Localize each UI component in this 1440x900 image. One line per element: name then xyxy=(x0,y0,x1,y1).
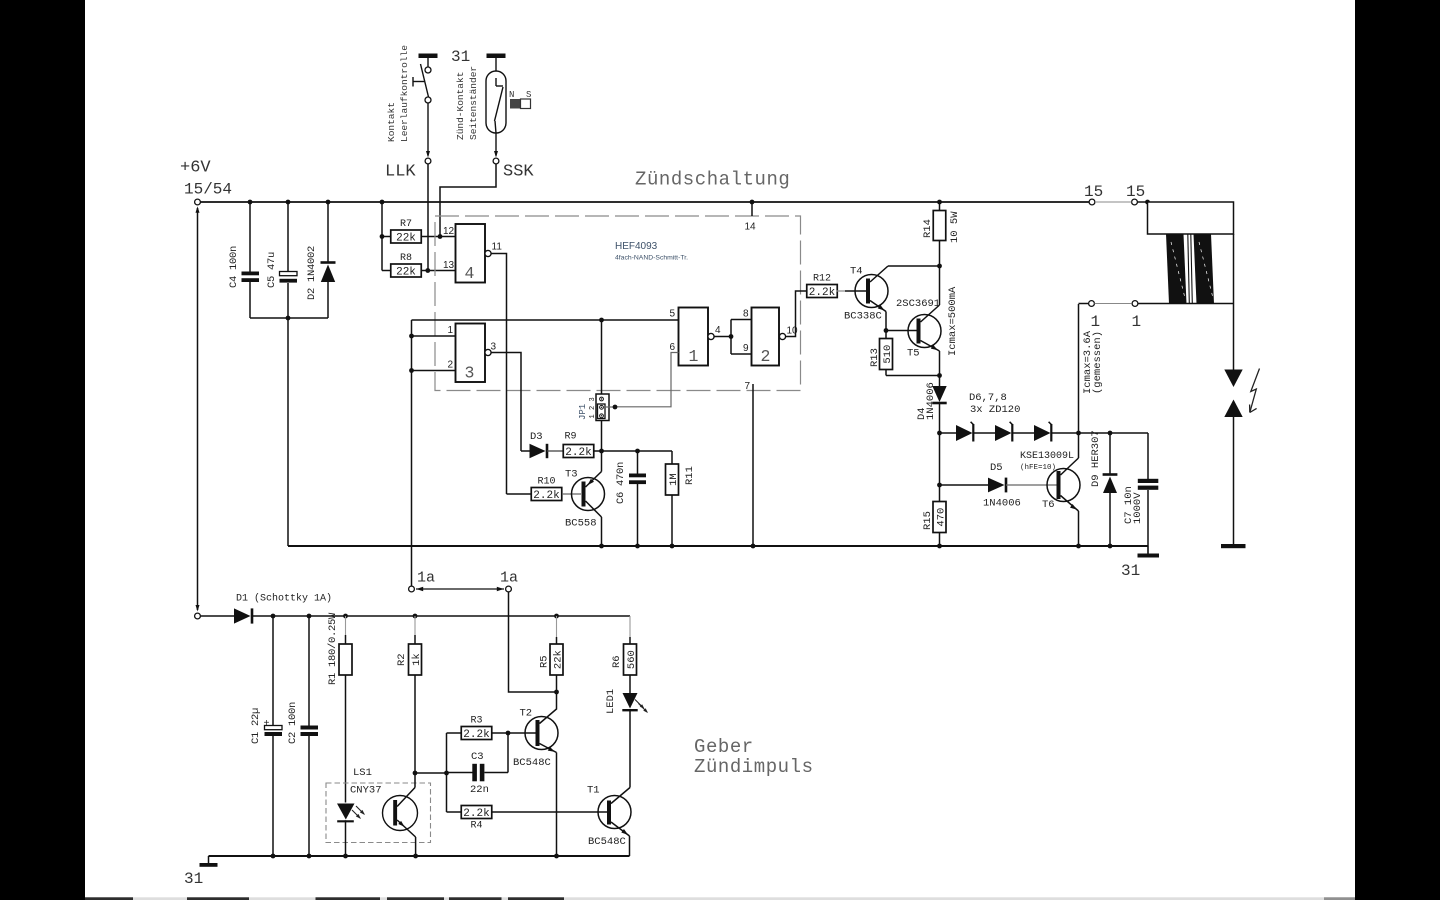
svg-text:1: 1 xyxy=(448,325,454,336)
svg-text:BC558: BC558 xyxy=(565,518,597,530)
svg-text:2.2k: 2.2k xyxy=(533,490,560,502)
wire 1a to T2 collector xyxy=(509,592,557,692)
svg-text:R14: R14 xyxy=(922,219,934,238)
svg-text:510: 510 xyxy=(882,345,894,364)
switch S1 Kontakt Leerlaufkontrolle xyxy=(419,54,438,59)
pin 14 xyxy=(750,200,755,205)
svg-text:Kontakt: Kontakt xyxy=(386,102,397,142)
resistor R15 xyxy=(933,502,946,533)
svg-text:Icmax=500mA: Icmax=500mA xyxy=(947,286,959,356)
svg-text:15/54: 15/54 xyxy=(184,181,232,199)
diode D9 HER307 xyxy=(1109,433,1111,474)
svg-text:3: 3 xyxy=(491,342,497,353)
svg-text:R1 180/0.25W: R1 180/0.25W xyxy=(327,612,339,685)
wire gate4 out to R10 xyxy=(491,254,507,495)
svg-text:2.2k: 2.2k xyxy=(463,729,490,741)
svg-text:Geber: Geber xyxy=(694,736,754,758)
wire gate1 pin6 to JP1 xyxy=(615,353,679,407)
ignition coil winding right xyxy=(1194,234,1215,304)
svg-text:T4: T4 xyxy=(850,266,863,278)
resistor R2 xyxy=(414,616,416,635)
svg-text:C5 47u: C5 47u xyxy=(266,252,278,288)
svg-text:7: 7 xyxy=(745,381,751,392)
svg-text:CNY37: CNY37 xyxy=(350,785,382,797)
spark gap xyxy=(1233,304,1235,370)
svg-text:SSK: SSK xyxy=(503,163,534,182)
svg-text:1k: 1k xyxy=(411,653,423,666)
svg-text:R3: R3 xyxy=(470,716,482,727)
svg-text:D6,7,8: D6,7,8 xyxy=(969,392,1007,404)
capacitor C2 xyxy=(308,616,310,726)
gate U1D nand 4 xyxy=(456,224,486,283)
svg-text:R11: R11 xyxy=(684,466,696,485)
svg-text:Zünd-Kontakt: Zünd-Kontakt xyxy=(455,72,466,140)
wire gate3 out to D3 xyxy=(491,353,521,452)
svg-text:1N4006: 1N4006 xyxy=(983,498,1021,510)
wire JP1 pin1 to R9 node xyxy=(601,421,603,452)
wire LLK to pin13 net xyxy=(427,164,429,271)
wire to ground rail xyxy=(287,318,289,546)
wire lower supply rail xyxy=(252,615,630,617)
svg-text:D2 1N4002: D2 1N4002 xyxy=(306,246,318,300)
svg-text:15: 15 xyxy=(1084,183,1103,201)
resistor R5 xyxy=(556,616,558,637)
diode D2 xyxy=(326,200,331,205)
capacitor C5 xyxy=(286,200,291,205)
wire SSK to pin12 net xyxy=(440,164,496,237)
gate U1C nand 3 xyxy=(456,324,486,383)
svg-text:R7: R7 xyxy=(400,219,412,230)
terminal +6V 15/54 xyxy=(195,199,201,205)
svg-text:2: 2 xyxy=(761,347,771,366)
svg-text:2.2k: 2.2k xyxy=(565,447,592,459)
resistor R1 xyxy=(345,616,347,635)
svg-text:LS1: LS1 xyxy=(353,767,372,779)
svg-text:8: 8 xyxy=(743,309,749,320)
ignition coil core xyxy=(1188,234,1190,304)
svg-text:1: 1 xyxy=(1091,313,1101,331)
vertical link wire +6V to lower supply xyxy=(197,208,199,610)
svg-text:R2: R2 xyxy=(396,653,408,666)
wire zener net xyxy=(1051,432,1148,434)
svg-text:10: 10 xyxy=(787,326,799,337)
terminal 1a left xyxy=(409,586,415,592)
ignition coil winding left xyxy=(1166,234,1187,304)
optocoupler LS1 CNY37 outline xyxy=(326,783,431,843)
terminal 1 left xyxy=(1089,301,1095,307)
svg-text:R10: R10 xyxy=(537,477,555,488)
svg-text:N: N xyxy=(509,90,514,100)
svg-text:R9: R9 xyxy=(564,432,576,443)
wire gate2 out to R12 xyxy=(786,291,808,337)
svg-text:C6 470n: C6 470n xyxy=(615,462,627,504)
resistor R4 xyxy=(447,811,462,813)
svg-text:Zündimpuls: Zündimpuls xyxy=(694,756,814,778)
svg-text:T5: T5 xyxy=(907,348,920,360)
svg-text:R12: R12 xyxy=(813,274,831,285)
LED1 xyxy=(623,693,638,709)
svg-text:BC338C: BC338C xyxy=(844,311,882,323)
resistor R6 xyxy=(629,616,631,637)
gate U1B nand 2 xyxy=(752,308,780,366)
terminal 1 right xyxy=(1132,301,1138,307)
optocoupler LED xyxy=(337,804,355,820)
capacitor C6 xyxy=(637,451,639,474)
wire 1 to T6 collector xyxy=(1079,303,1089,305)
resistor R9 xyxy=(563,445,594,458)
IC U1 HEF4093 outline xyxy=(435,216,801,391)
resistor R8 xyxy=(382,270,391,272)
svg-text:C4 100n: C4 100n xyxy=(228,246,240,288)
svg-text:D9 HER307: D9 HER307 xyxy=(1090,430,1102,487)
svg-text:1M: 1M xyxy=(668,473,680,486)
resistor R11 xyxy=(671,451,673,465)
svg-text:LLK: LLK xyxy=(385,163,416,182)
transistor T2 BC548C npn xyxy=(525,717,558,750)
diode D5 xyxy=(940,484,989,486)
svg-text:4: 4 xyxy=(715,325,721,336)
transistor T6 KSE13009L npn xyxy=(1047,469,1080,502)
zener D7 xyxy=(973,432,995,434)
wire R9 node xyxy=(594,450,672,452)
capacitor C3 xyxy=(447,772,473,774)
wire 1 to coil bottom xyxy=(1138,303,1233,305)
terminal SSK xyxy=(493,158,499,164)
wire 15 to coil xyxy=(1138,201,1149,203)
svg-text:22k: 22k xyxy=(396,267,416,279)
svg-text:(gemessen): (gemessen) xyxy=(1092,331,1104,394)
resistor R7 xyxy=(382,236,391,238)
zener D6 xyxy=(940,432,957,434)
svg-text:22n: 22n xyxy=(470,784,489,796)
svg-text:1000V: 1000V xyxy=(1132,492,1144,524)
svg-text:6: 6 xyxy=(670,342,676,353)
diode D4 xyxy=(939,376,941,387)
svg-text:BC548C: BC548C xyxy=(513,757,551,769)
transistor T5 2SC3691 npn xyxy=(908,315,941,348)
jumper JP1 xyxy=(596,394,609,421)
svg-text:T2: T2 xyxy=(520,708,533,720)
wire JP1 pin2 xyxy=(605,406,615,408)
lightning bolt xyxy=(1250,369,1260,413)
wire S2 to SSK xyxy=(495,133,497,156)
svg-text:12: 12 xyxy=(443,226,455,237)
wire S1 to LLK xyxy=(427,103,429,156)
resistor R10 xyxy=(507,493,532,495)
terminal 1a right xyxy=(506,586,512,592)
diode D1 xyxy=(201,615,234,617)
gate U1A nand 1 xyxy=(679,308,709,366)
svg-text:2: 2 xyxy=(589,406,597,410)
svg-text:R13: R13 xyxy=(869,348,881,367)
svg-text:R15: R15 xyxy=(922,511,934,530)
wire gate3 inputs xyxy=(412,335,456,337)
wire gate3 net to gate1 pin5 xyxy=(412,319,679,321)
svg-text:14: 14 xyxy=(745,222,757,233)
svg-text:9: 9 xyxy=(743,343,749,354)
svg-text:15: 15 xyxy=(1126,183,1145,201)
wire D4 node down xyxy=(939,433,941,502)
link 1a-1a arrows xyxy=(416,588,504,590)
svg-text:22k: 22k xyxy=(552,650,564,669)
svg-text:13: 13 xyxy=(443,260,455,271)
wire gate1-pin5 net to JP1 pin3 xyxy=(599,318,604,323)
capacitor C7 xyxy=(1147,433,1149,479)
svg-text:1N4006: 1N4006 xyxy=(925,382,937,420)
wire ground rail upper xyxy=(288,545,1148,547)
svg-text:1a: 1a xyxy=(500,570,518,587)
svg-text:1: 1 xyxy=(589,414,597,418)
svg-text:31: 31 xyxy=(184,870,203,888)
svg-text:+6V: +6V xyxy=(180,159,211,178)
transistor T4 BC338C npn xyxy=(855,275,888,308)
svg-text:D1 (Schottky 1A): D1 (Schottky 1A) xyxy=(236,593,332,605)
optocoupler phototransistor xyxy=(383,796,418,831)
svg-text:560: 560 xyxy=(626,650,638,669)
svg-text:R8: R8 xyxy=(400,253,412,264)
svg-text:C1 22µ: C1 22µ xyxy=(250,708,262,744)
svg-text:3: 3 xyxy=(589,397,597,401)
svg-text:T3: T3 xyxy=(565,469,578,481)
svg-text:22k: 22k xyxy=(396,233,416,245)
resistor R12 xyxy=(807,285,838,298)
ignition coil right lead xyxy=(1233,234,1235,304)
svg-text:1: 1 xyxy=(689,347,699,366)
svg-text:10 5W: 10 5W xyxy=(949,211,961,243)
svg-text:D3: D3 xyxy=(530,431,543,443)
svg-text:JP1: JP1 xyxy=(578,404,588,420)
bottom strip xyxy=(85,897,1355,900)
svg-text:31: 31 xyxy=(451,48,470,66)
svg-text:1a: 1a xyxy=(417,570,435,587)
wire C4-C5-D2 bottom bus xyxy=(250,317,328,319)
svg-text:2.2k: 2.2k xyxy=(809,287,836,299)
svg-text:D5: D5 xyxy=(990,462,1003,474)
svg-text:HEF4093: HEF4093 xyxy=(615,241,658,252)
wire top supply rail xyxy=(200,201,1089,203)
capacitor C1 xyxy=(272,616,274,725)
svg-text:470: 470 xyxy=(935,508,947,527)
wire gate1 out to gate2 xyxy=(714,336,731,338)
link 15-15 xyxy=(1095,201,1132,203)
wire ground rail lower xyxy=(209,855,630,857)
svg-text:3x ZD120: 3x ZD120 xyxy=(970,404,1020,416)
svg-text:Seitenständer: Seitenständer xyxy=(468,66,479,140)
capacitor C4 xyxy=(248,200,253,205)
svg-text:2SC3691: 2SC3691 xyxy=(896,298,940,310)
svg-text:KSE13009L: KSE13009L xyxy=(1020,451,1074,462)
wire gate3 input net to 1a xyxy=(411,320,413,586)
svg-text:4fach-NAND-Schmitt-Tr.: 4fach-NAND-Schmitt-Tr. xyxy=(615,255,688,262)
ground 31 lower xyxy=(208,856,210,863)
svg-text:4: 4 xyxy=(465,264,475,283)
svg-text:2: 2 xyxy=(448,360,454,371)
transistor T3 BC558 pnp xyxy=(572,478,605,511)
terminal supply lower xyxy=(195,613,201,619)
svg-text:Zündschaltung: Zündschaltung xyxy=(635,169,790,191)
svg-text:1: 1 xyxy=(1132,313,1142,331)
svg-text:T1: T1 xyxy=(587,785,600,797)
svg-text:3: 3 xyxy=(465,364,475,383)
wire R7-R8 feed xyxy=(380,200,385,205)
transistor T1 BC548C npn xyxy=(598,796,631,829)
svg-text:T6: T6 xyxy=(1042,499,1055,511)
zener D8 xyxy=(1012,432,1034,434)
svg-text:R5: R5 xyxy=(539,655,551,668)
ground 31 upper xyxy=(1147,546,1149,554)
svg-text:(hFE=10): (hFE=10) xyxy=(1020,464,1056,472)
link 1-1 xyxy=(1095,303,1132,305)
svg-text:LED1: LED1 xyxy=(605,689,617,714)
svg-text:R6: R6 xyxy=(611,655,623,668)
svg-text:2.2k: 2.2k xyxy=(463,808,490,820)
svg-text:Leerlaufkontrolle: Leerlaufkontrolle xyxy=(399,45,410,142)
terminal LLK xyxy=(425,158,431,164)
svg-text:R4: R4 xyxy=(470,821,482,832)
svg-text:31: 31 xyxy=(1121,562,1140,580)
ground spark gap xyxy=(1221,544,1246,548)
svg-text:C3: C3 xyxy=(471,751,484,763)
resistor R14 xyxy=(937,200,942,205)
svg-text:BC548C: BC548C xyxy=(588,836,626,848)
wire T5 collector xyxy=(939,266,941,305)
wire base node xyxy=(415,772,447,774)
svg-text:C2 100n: C2 100n xyxy=(287,702,299,744)
svg-text:5: 5 xyxy=(670,309,676,320)
switch S2 Zünd-Kontakt Seitenständer (reed) xyxy=(487,54,506,59)
resistor R3 xyxy=(447,732,462,734)
resistor R13 xyxy=(885,331,887,340)
ignition coil primary box xyxy=(1148,202,1234,234)
svg-text:11: 11 xyxy=(492,242,503,253)
